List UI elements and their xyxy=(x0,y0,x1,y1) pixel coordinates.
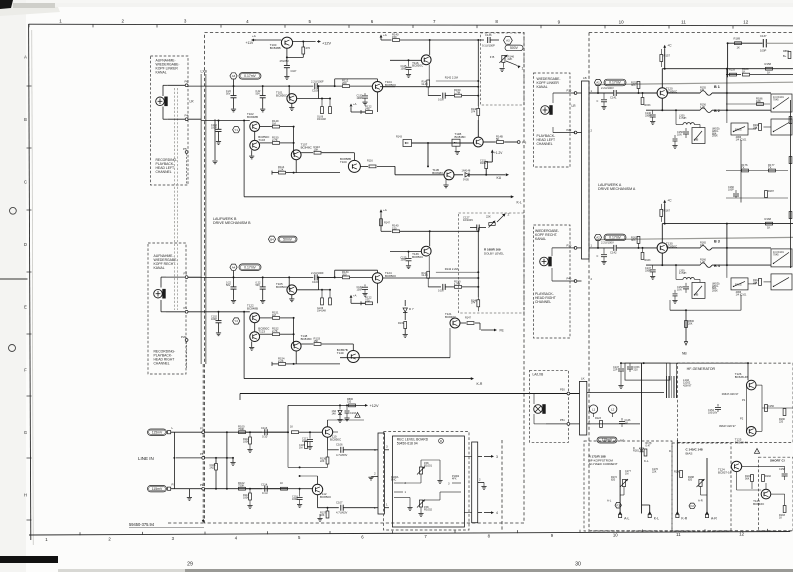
wires switch interconnect xyxy=(699,279,701,282)
transistor T148 xyxy=(291,341,301,351)
wire bus tail xyxy=(383,86,479,88)
wire collector loop xyxy=(334,79,336,86)
svg-text:FE: FE xyxy=(500,328,505,332)
capacitor C149 xyxy=(674,135,676,138)
svg-text:BC638-46: BC638-46 xyxy=(735,375,749,379)
svg-text:150: 150 xyxy=(392,226,397,230)
capacitor C129 row xyxy=(428,95,441,97)
wire head L to bar xyxy=(553,92,575,94)
svg-text:820: 820 xyxy=(611,478,616,481)
svg-text:BC837-16: BC837-16 xyxy=(718,470,732,474)
capacitor C129 row xyxy=(428,286,441,288)
svg-text:C: C xyxy=(597,100,599,103)
svg-text:T103: T103 xyxy=(258,138,265,142)
svg-text:LA/LXB: LA/LXB xyxy=(533,373,544,377)
transistor T103 xyxy=(250,140,260,150)
svg-text:+11V: +11V xyxy=(246,41,254,45)
wire from B4 to NB node xyxy=(669,300,671,310)
node P0 stub right head xyxy=(185,339,188,342)
corner mark top-left xyxy=(0,0,13,9)
svg-text:BC848B: BC848B xyxy=(247,306,258,310)
svg-text:330P: 330P xyxy=(645,269,651,272)
svg-text:100P: 100P xyxy=(357,288,363,291)
svg-text:15K: 15K xyxy=(314,148,319,152)
svg-text:LR: LR xyxy=(190,100,195,104)
svg-text:150: 150 xyxy=(392,35,397,39)
svg-text:R189: R189 xyxy=(734,37,741,41)
svg-text:+12V: +12V xyxy=(322,42,331,46)
svg-text:C107: C107 xyxy=(336,500,343,504)
capacitor C137 xyxy=(762,39,764,47)
svg-text:G: G xyxy=(24,430,27,435)
svg-text:115mV: 115mV xyxy=(152,430,163,434)
top right rail xyxy=(728,42,763,44)
dashed vertical mid-bottom xyxy=(501,440,503,531)
mid right row2 xyxy=(726,103,770,105)
mid right row R180 xyxy=(726,74,741,76)
svg-text:P2: P2 xyxy=(184,271,188,275)
resistor R191 xyxy=(751,475,754,482)
bar LK pin 1 xyxy=(587,423,591,425)
svg-text:1K: 1K xyxy=(767,71,771,75)
wire to transformer xyxy=(591,392,664,394)
top ruler ticks and numbers xyxy=(29,19,749,29)
oval 500V xyxy=(505,45,523,51)
diode cluster on K-L xyxy=(640,448,644,452)
svg-text:T149: T149 xyxy=(337,351,344,355)
svg-text:C108: C108 xyxy=(312,89,319,93)
wire main bus left ch xyxy=(188,85,313,87)
transistor T112 xyxy=(312,484,322,494)
svg-text:R142 2.2M: R142 2.2M xyxy=(445,76,459,80)
transistor T104 xyxy=(372,82,382,92)
svg-text:R181: R181 xyxy=(633,449,640,452)
svg-text:100P: 100P xyxy=(292,498,298,501)
wire collector loop xyxy=(334,270,336,277)
board outline LAUFWERK A (dashed) xyxy=(589,32,793,34)
stub resistors right edge xyxy=(789,117,792,124)
svg-text:1K: 1K xyxy=(779,516,782,519)
svg-text:200K: 200K xyxy=(712,290,718,293)
wire emitter row B2 xyxy=(661,98,663,110)
svg-text:R: R xyxy=(440,439,442,443)
resistor R166 right xyxy=(788,52,791,59)
svg-text:100P: 100P xyxy=(728,188,734,191)
wire laufwerk A bottom entries xyxy=(641,340,643,363)
svg-text:10N: 10N xyxy=(677,133,682,136)
transistor T102 xyxy=(250,122,260,132)
arrow KU xyxy=(486,174,505,176)
wire T100 to +12V xyxy=(293,41,316,43)
diode D105 xyxy=(454,174,463,176)
coil L2 xyxy=(609,405,617,413)
svg-text:100P: 100P xyxy=(211,318,217,321)
ground lower left xyxy=(188,489,190,497)
svg-text:C141: C141 xyxy=(610,95,617,99)
capacitor C106 xyxy=(340,447,342,453)
svg-text:P7: P7 xyxy=(200,427,204,431)
capacitor C102 xyxy=(218,121,220,130)
resistor R150 row xyxy=(455,286,462,289)
head RP left xyxy=(156,97,165,106)
resistor R193 xyxy=(783,506,786,513)
diode D103 xyxy=(339,405,341,409)
svg-text:7045: 7045 xyxy=(773,253,779,256)
svg-text:074: 074 xyxy=(471,302,476,305)
svg-text:22K: 22K xyxy=(320,460,325,463)
svg-text:GL05: GL05 xyxy=(422,83,429,86)
capacitor C134 xyxy=(218,312,220,321)
svg-text:2.2K: 2.2K xyxy=(278,168,284,172)
svg-text:100P: 100P xyxy=(211,127,217,130)
svg-text:A-R: A-R xyxy=(698,499,703,503)
svg-text:BC848B: BC848B xyxy=(247,115,258,119)
svg-text:BC848B: BC848B xyxy=(270,46,281,50)
svg-text:R163: R163 xyxy=(645,259,652,262)
svg-text:B 3: B 3 xyxy=(714,240,720,244)
svg-text:D: D xyxy=(669,449,671,453)
svg-text:BC850C: BC850C xyxy=(385,83,397,87)
svg-text:BC850C: BC850C xyxy=(412,64,424,68)
capacitor C109 xyxy=(314,274,316,280)
wire bus from bar xyxy=(589,247,613,249)
svg-text:22K: 22K xyxy=(320,514,325,517)
wires hf internals xyxy=(747,363,749,380)
svg-text:50V: 50V xyxy=(256,284,261,287)
wire K-L jog xyxy=(642,504,650,506)
svg-text:3K3: 3K3 xyxy=(631,84,636,87)
svg-text:500V: 500V xyxy=(510,46,519,50)
wire T110 emitter to C106 xyxy=(327,437,329,450)
wire record head upper xyxy=(547,393,561,395)
svg-text:470: 470 xyxy=(700,244,705,247)
REC LEVEL BOARD dashed outline xyxy=(384,432,470,531)
svg-text:P20: P20 xyxy=(567,128,572,132)
resistor R141 emitter xyxy=(428,65,430,80)
svg-text:A2: A2 xyxy=(596,236,600,240)
laufwerk A dashed bottom xyxy=(589,530,793,532)
head wiring gray pair (dashed) xyxy=(173,88,175,310)
capacitor C160 xyxy=(735,190,737,193)
vertical line K-R bottom xyxy=(676,440,678,514)
resistor R113b xyxy=(249,489,251,493)
svg-text:D 7: D 7 xyxy=(409,307,414,311)
svg-text:150: 150 xyxy=(347,400,352,403)
wire output row B1 xyxy=(668,92,701,94)
transistor T109 xyxy=(348,160,360,172)
resistor R122 T124 xyxy=(377,283,379,303)
dashed box short circuit xyxy=(759,457,793,531)
wire base row xyxy=(390,251,421,253)
bar pin 1 xyxy=(384,507,389,509)
capacitor C107 xyxy=(286,57,288,65)
wire line-in bottom xyxy=(171,488,288,490)
resistor R189 xyxy=(735,42,742,45)
capacitor C125 xyxy=(408,252,410,258)
wire line-in top xyxy=(171,431,288,433)
svg-text:NB: NB xyxy=(682,352,687,356)
rec/play head right channel box (dashed) xyxy=(148,243,186,374)
wire supply to T100 xyxy=(253,39,282,41)
svg-text:BC846C: BC846C xyxy=(753,502,765,506)
svg-text:R139: R139 xyxy=(398,322,405,325)
resistor R141 emitter xyxy=(428,256,430,271)
svg-text:1M: 1M xyxy=(625,472,628,475)
svg-text:29: 29 xyxy=(187,562,193,568)
svg-text:+C: +C xyxy=(667,198,672,202)
capacitor C156 xyxy=(759,404,762,406)
svg-text:BC848C: BC848C xyxy=(301,146,313,150)
oval 0.17mV A1 xyxy=(604,79,626,86)
transistor T123 xyxy=(250,332,260,342)
capacitor C101 xyxy=(262,86,264,96)
svg-text:148: 148 xyxy=(332,412,337,415)
svg-text:R140: R140 xyxy=(674,471,681,474)
svg-text:0.1U: 0.1U xyxy=(262,491,268,495)
supply arrow +A sub xyxy=(380,36,382,39)
transistor T124 xyxy=(372,273,382,283)
svg-text:LXB: LXB xyxy=(201,70,208,74)
svg-text:P1: P1 xyxy=(184,306,188,310)
svg-text:LR: LR xyxy=(572,104,577,108)
resistor R102 xyxy=(239,487,246,490)
capacitor C150 xyxy=(685,128,687,131)
capacitor C132 T124 xyxy=(364,284,366,286)
svg-text:CHANNEL: CHANNEL xyxy=(537,142,553,146)
svg-text:5K: 5K xyxy=(496,137,500,141)
svg-text:100/16V: 100/16V xyxy=(708,411,718,414)
capacitor C103 xyxy=(233,277,235,287)
hex F2 xyxy=(689,503,695,509)
svg-text:B+: B+ xyxy=(783,54,787,58)
capacitor C100 xyxy=(233,86,235,96)
capacitor C141 xyxy=(613,90,615,96)
transistor T100 xyxy=(281,37,292,48)
wire head-R upper xyxy=(166,276,201,278)
bar LK pin 2 xyxy=(587,392,591,394)
switch box IC101 b xyxy=(771,274,792,290)
REC LEVEL BOARD solid box xyxy=(392,436,464,527)
svg-text:22K: 22K xyxy=(486,215,491,219)
transistor T107 xyxy=(291,150,301,160)
wire T112 emitter to C107b xyxy=(317,495,319,508)
resistor R124b xyxy=(292,431,299,434)
bar pin 3 xyxy=(384,449,389,451)
resistor R148 low xyxy=(477,300,480,307)
crossing circles on dashed bus xyxy=(202,431,205,434)
resistor R140 xyxy=(393,230,400,233)
hump resistor R155 xyxy=(700,91,712,96)
wire C127 link xyxy=(477,228,479,232)
row interconnect 170 xyxy=(726,170,788,172)
svg-text:GL05: GL05 xyxy=(422,274,429,277)
hump resistor R156 xyxy=(700,108,712,113)
hump resistor R165 xyxy=(700,246,712,251)
wire second bus R2 xyxy=(201,311,250,313)
svg-text:470: 470 xyxy=(700,89,705,92)
svg-text:470: 470 xyxy=(306,46,311,50)
svg-text:P2: P2 xyxy=(740,417,744,421)
frame top horizontal rule xyxy=(29,24,793,26)
svg-text:200K: 200K xyxy=(712,135,718,138)
transistor T105 xyxy=(288,277,290,289)
svg-text:LB: LB xyxy=(583,76,587,80)
svg-text:B4: B4 xyxy=(270,237,274,241)
supply arrow +12V bottom xyxy=(364,404,367,406)
svg-text:BC638-46: BC638-46 xyxy=(735,440,749,444)
bar pin 2 xyxy=(372,476,378,478)
svg-text:BC850C: BC850C xyxy=(320,495,332,499)
supply +A emitter T104 xyxy=(350,105,352,107)
svg-text:R123: R123 xyxy=(595,417,602,420)
svg-text:0.17mV: 0.17mV xyxy=(244,74,256,78)
connector bar right of board xyxy=(472,442,478,523)
svg-text:DRIVE MECHANISM B: DRIVE MECHANISM B xyxy=(213,221,251,225)
test point A1 xyxy=(594,79,601,85)
connector bar P100 xyxy=(378,433,384,514)
registration hole lower xyxy=(9,345,16,352)
resistor R162 xyxy=(637,236,640,243)
bottom pins A-L K-L K-R A-R xyxy=(618,511,622,514)
switch box R144b xyxy=(452,139,460,146)
svg-text:R192: R192 xyxy=(765,475,772,478)
playback head right box (dashed) xyxy=(534,225,571,338)
resistor R167 xyxy=(660,209,663,216)
svg-text:+A: +A xyxy=(383,33,387,37)
svg-text:0.17mV: 0.17mV xyxy=(609,236,621,240)
vertical line A-R bottom xyxy=(706,458,708,514)
svg-text:4FX: 4FX xyxy=(452,477,457,480)
svg-text:K-L: K-L xyxy=(644,459,649,463)
resistor R190 xyxy=(783,409,786,416)
svg-text:BC848C: BC848C xyxy=(301,337,313,341)
svg-text:12: 12 xyxy=(743,20,749,25)
svg-text:B: B xyxy=(24,117,27,122)
bar pin P40 xyxy=(577,280,582,282)
transistor T121 xyxy=(450,318,460,328)
corner mark bottom-left xyxy=(0,556,58,563)
wire line-in left verticals xyxy=(173,432,175,458)
svg-text:BNC: BNC xyxy=(391,478,396,481)
transistor T123 short box xyxy=(761,489,771,499)
resistor R151 xyxy=(260,317,272,319)
svg-text:C133: C133 xyxy=(350,412,357,415)
bottom scan bar xyxy=(185,569,793,572)
svg-text:0.10: 0.10 xyxy=(262,434,268,438)
svg-text:F2: F2 xyxy=(690,504,694,508)
svg-text:22K: 22K xyxy=(652,470,657,473)
svg-text:R147: R147 xyxy=(384,221,391,224)
svg-text:T109: T109 xyxy=(340,160,347,164)
svg-text:200: 200 xyxy=(342,272,347,276)
svg-text:BC850C: BC850C xyxy=(276,285,288,289)
warning triangle bottom xyxy=(355,413,360,418)
resistor R150 xyxy=(260,142,272,144)
wire junction vertical xyxy=(293,127,295,155)
NB branch lower xyxy=(685,310,687,341)
wire row mid gray xyxy=(436,271,478,273)
potentiometer R144 xyxy=(489,223,495,226)
svg-text:P30: P30 xyxy=(567,243,572,247)
svg-text:11: 11 xyxy=(681,20,686,25)
node P5 lower stub xyxy=(185,151,188,154)
pot R1001 xyxy=(419,467,422,474)
svg-text:A3: A3 xyxy=(506,39,510,43)
svg-text:A1: A1 xyxy=(596,81,600,85)
small solid box record drive xyxy=(625,363,670,380)
wire emitter row B2 xyxy=(661,253,663,265)
svg-text:1N4148: 1N4148 xyxy=(317,118,326,121)
svg-text:4.7U/63V: 4.7U/63V xyxy=(336,453,347,457)
capacitor C142 xyxy=(613,245,615,251)
svg-text:1K: 1K xyxy=(280,482,283,485)
capacitor C152 xyxy=(685,283,687,286)
transistor T120 xyxy=(657,88,667,98)
resistor R176 xyxy=(742,169,749,172)
page margin shading xyxy=(0,0,26,572)
svg-text:BC848C: BC848C xyxy=(432,171,444,175)
oval 115mV R xyxy=(148,486,167,492)
level oval A3 xyxy=(239,73,261,80)
svg-text:3K3: 3K3 xyxy=(631,239,636,242)
wire feedback vertical xyxy=(243,312,245,379)
transistor T130 xyxy=(657,243,667,253)
svg-text:220: 220 xyxy=(634,368,639,371)
ground line-in mid xyxy=(232,458,234,462)
svg-text:KANAL: KANAL xyxy=(537,85,548,89)
svg-text:100P: 100P xyxy=(760,49,767,53)
resistor R163 xyxy=(641,252,644,259)
wire head-R lower xyxy=(166,311,201,313)
svg-text:1K: 1K xyxy=(767,226,771,230)
vertical line K-L bottom xyxy=(641,363,643,513)
svg-text:1M: 1M xyxy=(299,446,302,449)
resistor R150 row xyxy=(455,94,462,97)
svg-text:PAUS: PAUS xyxy=(735,129,742,132)
capacitor C147 xyxy=(652,265,654,269)
connector bar LK xyxy=(580,381,587,435)
svg-text:4: 4 xyxy=(496,511,498,515)
svg-text:750K: 750K xyxy=(238,427,245,431)
gray bus line bottom channel xyxy=(596,237,793,239)
coil L1 xyxy=(589,405,597,413)
bar2 pin 2 xyxy=(478,481,484,483)
svg-text:1N4148: 1N4148 xyxy=(317,309,326,312)
bar pin P20 xyxy=(577,132,582,134)
wire collector up +C xyxy=(661,224,663,243)
svg-text:L2: L2 xyxy=(611,407,615,411)
resistor R147v xyxy=(380,219,383,226)
svg-text:NB: NB xyxy=(695,138,699,142)
capacitor C153 xyxy=(629,363,631,366)
svg-text:3: 3 xyxy=(496,455,498,459)
svg-text:4.7MH: 4.7MH xyxy=(679,272,687,275)
svg-text:K-L: K-L xyxy=(654,516,659,520)
capacitor C132 T104 xyxy=(364,93,366,95)
record head box LA/LXB (dashed) xyxy=(530,370,569,442)
ground T112 branch xyxy=(319,514,321,518)
switch box IC101 a xyxy=(771,94,792,112)
svg-text:1N4148: 1N4148 xyxy=(462,169,471,172)
transistor T124 short box xyxy=(731,461,741,471)
transistor T136 xyxy=(429,231,431,246)
bus LXB dashed continuation xyxy=(202,364,204,519)
svg-text:50V: 50V xyxy=(226,284,231,287)
capacitor C146 xyxy=(652,110,654,114)
svg-text:SHORT CI: SHORT CI xyxy=(770,459,785,463)
svg-text:C106: C106 xyxy=(336,442,343,446)
svg-text:100P: 100P xyxy=(401,67,407,70)
